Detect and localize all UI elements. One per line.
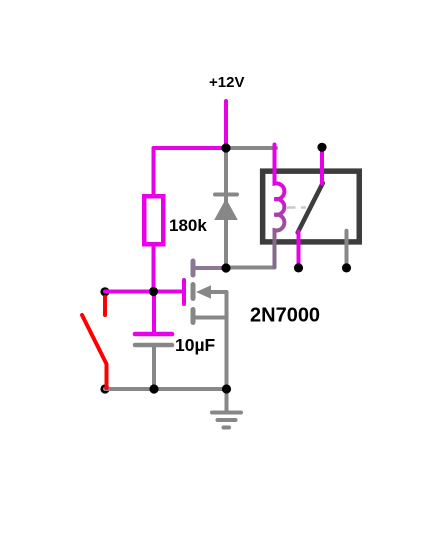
wire capacitor top lead — [152, 292, 156, 333]
svg-text:10µF: 10µF — [175, 335, 216, 355]
wire diode branch — [224, 148, 228, 268]
wire coil bottom to drain node — [226, 266, 275, 270]
relay K1 actuation dashed link — [287, 206, 306, 208]
transistor Q1 body arrow — [196, 285, 211, 299]
node switch bottom terminal — [100, 384, 109, 393]
node drain junction — [221, 263, 230, 272]
transistor Q1 body wire — [211, 292, 227, 318]
wire +12V feed — [224, 101, 228, 148]
diode D1 cathode bar — [215, 193, 237, 197]
wire +12V rail to resistor top — [154, 148, 227, 196]
wire drain to node — [193, 266, 226, 270]
relay K1 coil — [275, 179, 285, 267]
wire +12V rail to relay coil — [226, 146, 276, 150]
relay K1 switch lever — [298, 183, 323, 233]
resistor R1 180k — [144, 196, 163, 244]
node relay NC pin — [342, 263, 351, 272]
transistor Q1 channel middle segment — [191, 285, 196, 299]
wire ground rail — [105, 387, 227, 391]
transistor Q1 source wire — [193, 316, 227, 320]
capacitor C1 bottom plate — [135, 343, 172, 348]
node switch top terminal — [100, 287, 109, 296]
svg-text:2N7000: 2N7000 — [250, 305, 320, 327]
wire source drop to ground rail — [225, 318, 229, 390]
wire capacitor bottom lead — [152, 346, 156, 389]
node capacitor ground junction — [149, 384, 158, 393]
ground bar 2 — [218, 418, 236, 422]
wire gate rail — [105, 290, 183, 294]
node gate junction — [149, 287, 158, 296]
node ground junction — [222, 384, 231, 393]
wire switch top stub — [103, 297, 107, 315]
ground bar 1 — [212, 389, 241, 413]
transistor Q1 gate bar — [182, 280, 186, 304]
capacitor C1 top plate — [135, 332, 172, 337]
node relay common pin — [294, 263, 303, 272]
transistor Q1 channel bottom segment — [191, 310, 196, 323]
relay K1 NC contact stub — [345, 231, 349, 268]
node relay top pin — [317, 143, 326, 152]
switch S1 lever — [82, 315, 107, 388]
node +12V junction — [221, 143, 230, 152]
svg-text:180k: 180k — [169, 216, 207, 235]
wire relay common pin drop — [297, 232, 301, 268]
relay K1 body — [263, 171, 360, 242]
wire resistor bottom to gate node — [152, 246, 156, 292]
transistor Q1 channel top segment — [191, 261, 196, 275]
diode D1 triangle — [214, 199, 238, 221]
ground bar 3 — [224, 426, 230, 430]
wire relay top pin drop — [320, 147, 324, 184]
svg-text:+12V: +12V — [209, 74, 244, 91]
wire coil top drop — [273, 145, 277, 182]
